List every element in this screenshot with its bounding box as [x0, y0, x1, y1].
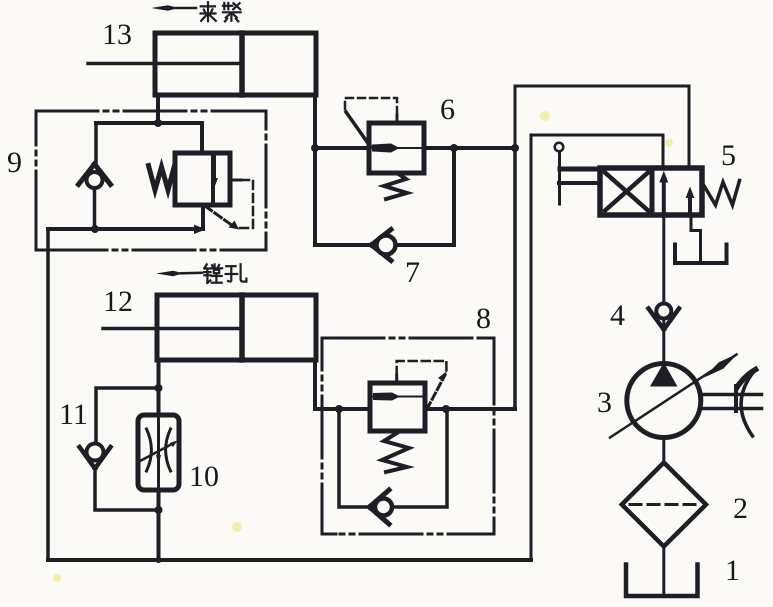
svg-text:4: 4: [610, 299, 625, 332]
wire: left rail: [46, 229, 50, 560]
junction node dots: [91, 119, 519, 563]
check valve 11 (flow up): [80, 444, 111, 469]
wire: valve 8 branch line: [315, 407, 515, 411]
check valve in valve 8 bypass: [370, 490, 393, 524]
svg-text:9: 9: [7, 146, 22, 179]
box 9 frame corner ticks: [36, 111, 266, 250]
wire: cylinder 12 rod: [103, 327, 242, 331]
valve 5 spring: [703, 181, 740, 206]
wire: box 9 bottom wire: [48, 205, 203, 229]
arrow for boring direction: [156, 271, 202, 276]
check valve in box 9 (flow down): [79, 164, 111, 188]
svg-text:6: 6: [440, 93, 455, 126]
valve 5 solenoid / pilot leads: [555, 143, 604, 204]
check valve 7 (bypass of valve 6): [372, 230, 396, 261]
wire: box 9 check branch: [94, 123, 98, 165]
wire: valve 5 P port down to check 4: [662, 215, 665, 304]
dash-dot enclosure box 8: [322, 338, 494, 534]
wire: cylinder 13 rod-end port down to box 9: [156, 95, 160, 123]
wire: riser from node to valve 5 top port: [515, 86, 689, 168]
directional valve 5 body: [600, 168, 702, 215]
wire: check 7 bypass right riser: [452, 148, 456, 245]
wire: cylinder 12 rod-end port down to throttle: [157, 360, 161, 416]
svg-text:11: 11: [59, 398, 88, 431]
drain tank at valve 5: [675, 245, 727, 264]
cylinder 13 body: [155, 33, 316, 95]
wire: box 9 top wire: [96, 123, 202, 154]
wire: check 11 bypass bottom: [95, 470, 159, 510]
svg-text:3: 3: [597, 386, 612, 419]
hanzi 孔 (hole): [226, 264, 247, 281]
svg-text:5: 5: [721, 139, 736, 172]
filter 2: [622, 463, 706, 547]
wire: throttle to bottom wire: [157, 489, 161, 560]
svg-text:13: 13: [102, 18, 132, 51]
cylinder 13 rod line inside: [157, 62, 242, 66]
arrow for clamp direction: [151, 5, 196, 11]
wire: cylinder 13 cap-end line down + check 7 bypass left side: [313, 95, 317, 245]
cylinder 12 piston: [239, 295, 245, 360]
wire: vertical from node down to valve 8 line: [513, 148, 517, 409]
wire: cylinder 12 cap-end line down: [313, 360, 317, 409]
check valve 4 (flow up): [649, 304, 680, 330]
faint scan stains: [53, 111, 673, 582]
svg-text:10: 10: [189, 460, 219, 493]
wire: cylinder 13 rod: [88, 62, 242, 66]
tank 1: [626, 565, 698, 597]
relief valve 8: [370, 361, 447, 472]
wire: right drain rail up to valve 5 top-left port: [531, 135, 663, 560]
hanzi 夹 (clamp): [201, 2, 216, 21]
wire: valve 5 T port step to drain tank: [691, 215, 701, 261]
svg-text:12: 12: [103, 285, 133, 318]
svg-text:1: 1: [725, 554, 740, 587]
cylinder 13 piston: [239, 33, 245, 95]
svg-text:8: 8: [476, 302, 491, 335]
wire: pump to filter: [662, 437, 665, 464]
dash-dot enclosure box 9: [36, 111, 266, 250]
svg-text:2: 2: [733, 492, 748, 525]
wire: check 11 bypass top: [96, 388, 159, 444]
hanzi 紧 (tight): [223, 3, 241, 22]
pressure reducing valve 6: [345, 98, 424, 199]
wire: filter to tank: [662, 546, 665, 594]
hanzi 镗 (boring): [204, 264, 222, 283]
wire: check 4 to pump: [662, 318, 665, 364]
svg-text:7: 7: [405, 256, 420, 289]
wire: main pressure line through valve 6: [315, 146, 515, 150]
sequence valve in box 9: [149, 153, 254, 230]
cylinder 12 rod line inside: [159, 327, 242, 331]
throttle valve 10: [138, 415, 179, 490]
arrowhead on box 9 bottom wire: [194, 225, 206, 235]
wire: valve 8 bypass loop: [339, 409, 447, 507]
wire: bottom return line: [48, 558, 531, 562]
wire: check 7 bypass bottom: [315, 243, 454, 247]
variable pump 3: [610, 354, 762, 438]
cylinder 12 body: [157, 295, 316, 360]
box 8 frame corner ticks: [322, 338, 494, 534]
